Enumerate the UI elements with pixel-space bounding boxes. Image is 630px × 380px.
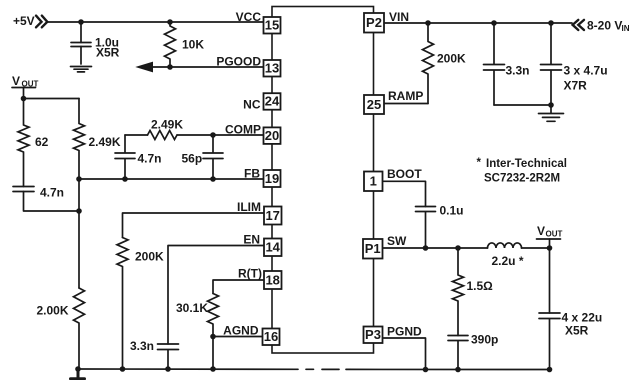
wire FB line to pin 19 xyxy=(79,178,264,180)
svg-text:OUT: OUT xyxy=(546,230,563,239)
net VOUT right underline xyxy=(537,238,561,240)
pin 16 box xyxy=(263,329,280,346)
node junction 30.1K/AGND xyxy=(210,334,216,340)
node junction +5V/10K xyxy=(167,19,173,25)
svg-text:PGOOD: PGOOD xyxy=(216,55,261,69)
svg-text:390p: 390p xyxy=(471,333,498,347)
capacitor C6 3.3n (VIN) xyxy=(484,23,505,105)
node junction divider/C2 xyxy=(76,208,82,214)
pin 1 box xyxy=(364,172,383,192)
wire ground rail dashed segment xyxy=(306,368,339,370)
connector 8-20 VIN input chevron xyxy=(573,20,584,30)
svg-text:16: 16 xyxy=(264,329,278,344)
resistor R4 2.00K xyxy=(74,288,85,369)
svg-text:2.49K: 2.49K xyxy=(151,118,183,132)
svg-text:62: 62 xyxy=(35,135,49,149)
wire input cap commons xyxy=(494,104,551,106)
svg-text:15: 15 xyxy=(265,18,279,33)
resistor R5 2.49K (comp) xyxy=(148,131,178,140)
arrow PGOOD output xyxy=(137,62,153,71)
svg-text:17: 17 xyxy=(265,208,279,223)
pin 14 box xyxy=(264,239,282,257)
net VOUT top-left underline xyxy=(12,87,36,89)
svg-text:V: V xyxy=(12,74,20,88)
svg-text:EN: EN xyxy=(243,233,260,247)
svg-text:25: 25 xyxy=(367,97,381,112)
svg-text:200K: 200K xyxy=(437,52,466,66)
capacitor C8 0.1u xyxy=(416,207,436,249)
capacitor C10 4x22u X5R xyxy=(539,313,560,370)
capacitor C1 1.0u X5R xyxy=(71,43,91,47)
wire ground rail solid left xyxy=(78,368,298,370)
node junction cap common xyxy=(548,102,554,108)
capacitor C3 4.7n (comp) xyxy=(115,135,135,179)
svg-text:1.5Ω: 1.5Ω xyxy=(467,279,494,293)
svg-text:FB: FB xyxy=(244,167,260,181)
svg-text:X5R: X5R xyxy=(565,324,589,338)
svg-text:Inter-Technical: Inter-Technical xyxy=(486,158,567,170)
svg-text:PGND: PGND xyxy=(387,325,422,339)
svg-text:56p: 56p xyxy=(182,152,203,166)
pin 25 box xyxy=(364,95,384,114)
resistor R1 10K xyxy=(165,22,176,67)
pin 13 box xyxy=(264,60,281,77)
svg-text:13: 13 xyxy=(265,61,279,76)
svg-text:+5V: +5V xyxy=(13,14,35,28)
svg-text:AGND: AGND xyxy=(223,324,259,338)
pin P3 box xyxy=(364,327,383,344)
svg-text:V: V xyxy=(537,224,545,238)
svg-text:P1: P1 xyxy=(365,241,381,256)
svg-text:4.7n: 4.7n xyxy=(40,186,64,200)
pin 15 box xyxy=(264,17,281,34)
wire VOUT tap down xyxy=(24,88,80,99)
wire VIN line xyxy=(384,22,573,24)
resistor R2 62 xyxy=(18,99,29,187)
svg-text:VCC: VCC xyxy=(236,10,262,24)
ground rail earth symbol xyxy=(71,369,85,379)
node junction rail/4x22u xyxy=(547,367,553,373)
svg-text:0.1u: 0.1u xyxy=(440,204,464,218)
svg-text:4.7n: 4.7n xyxy=(138,152,162,166)
resistor R3 2.49K (divider upper) xyxy=(74,99,85,180)
capacitor C4 56p xyxy=(203,135,223,179)
connector +5V input chevron xyxy=(36,16,47,28)
svg-text:1: 1 xyxy=(370,174,377,189)
wire EN line xyxy=(168,246,264,345)
svg-text:8-20 V: 8-20 V xyxy=(587,19,622,33)
ground below C1 xyxy=(71,67,92,72)
svg-text:NC: NC xyxy=(243,98,261,112)
svg-text:2.00K: 2.00K xyxy=(37,304,69,318)
svg-text:30.1K: 30.1K xyxy=(176,301,208,315)
svg-text:OUT: OUT xyxy=(22,80,39,89)
node junction 10K/PGOOD xyxy=(167,64,173,70)
svg-text:3.3n: 3.3n xyxy=(130,339,154,353)
svg-text:P3: P3 xyxy=(365,327,381,342)
wire PGOOD line xyxy=(150,66,264,68)
svg-text:18: 18 xyxy=(265,272,279,287)
svg-text:19: 19 xyxy=(265,171,279,186)
node junction rail/390p xyxy=(455,367,461,373)
pin 20 box xyxy=(264,127,281,143)
node junction VOUT/L1 xyxy=(547,245,553,251)
node junction rail/3.3n xyxy=(165,366,171,372)
wire RAMP line xyxy=(384,103,429,105)
svg-text:VIN: VIN xyxy=(389,10,409,24)
svg-text:24: 24 xyxy=(265,94,280,109)
ground below input caps xyxy=(539,105,564,121)
wire C2 bottom to FB divider node xyxy=(24,192,80,212)
capacitor C2 4.7n (left) xyxy=(13,187,34,192)
resistor R9 1.5ohm snubber xyxy=(453,248,464,336)
svg-text:200K: 200K xyxy=(135,250,164,264)
node junction VIN/3x4.7u xyxy=(548,20,554,26)
wire AGND line xyxy=(213,337,263,370)
wire R(T) line xyxy=(213,280,264,294)
node junction rail/30.1K xyxy=(210,366,216,372)
node junction FB/divider xyxy=(76,176,82,182)
resistor R7 30.1K xyxy=(208,294,219,337)
node junction +5V/1.0u xyxy=(78,19,84,25)
svg-text:2.49K: 2.49K xyxy=(89,135,121,149)
wire 1.0u cap branch xyxy=(80,22,82,64)
svg-text:4 x 22u: 4 x 22u xyxy=(562,311,603,325)
svg-text:10K: 10K xyxy=(182,38,204,52)
node junction SW/snubber xyxy=(455,245,461,251)
svg-text:20: 20 xyxy=(265,128,279,143)
svg-text:COMP: COMP xyxy=(225,123,261,137)
svg-text:IN: IN xyxy=(622,24,630,33)
svg-text:ILIM: ILIM xyxy=(237,200,261,214)
resistor R6 200K (ILIM) xyxy=(117,238,128,370)
svg-text:SW: SW xyxy=(387,234,407,248)
node junction FB/C4 xyxy=(210,176,216,182)
wire BOOT line xyxy=(384,181,426,206)
capacitor C7 3x4.7u X7R xyxy=(541,23,562,105)
svg-text:X5R: X5R xyxy=(96,46,120,60)
pin 19 box xyxy=(264,170,281,187)
svg-text:3.3n: 3.3n xyxy=(506,64,530,78)
node junction VOUT xyxy=(21,96,27,102)
svg-text:3 x 4.7u: 3 x 4.7u xyxy=(564,64,608,78)
node junction VIN/3.3n xyxy=(491,20,497,26)
pin P2 box xyxy=(364,13,384,33)
node junction rail/2.00K xyxy=(75,366,81,372)
wire PGND line xyxy=(384,338,426,370)
pin P1 box xyxy=(363,239,383,259)
capacitor C9 390p xyxy=(448,336,468,370)
inductor L1 2.2u xyxy=(488,243,522,248)
svg-text:*: * xyxy=(477,157,482,169)
wire ILIM line xyxy=(123,213,264,238)
svg-text:P2: P2 xyxy=(366,15,382,30)
wire ground rail solid right xyxy=(346,368,550,370)
pin 18 box xyxy=(264,271,282,289)
svg-text:RAMP: RAMP xyxy=(388,89,423,103)
wire FB vertical through divider xyxy=(78,179,80,288)
pin 17 box xyxy=(264,207,282,225)
node junction rail/200K xyxy=(120,366,126,372)
pin 24 box xyxy=(264,93,281,110)
capacitor C5 3.3n (EN) xyxy=(158,344,179,369)
node junction rail/PGND xyxy=(423,367,429,373)
svg-text:2.2u *: 2.2u * xyxy=(492,254,524,268)
IC U1 SC7232 body outline xyxy=(272,7,374,354)
svg-text:R(T): R(T) xyxy=(238,267,262,281)
wire SW line xyxy=(384,247,550,249)
svg-text:14: 14 xyxy=(265,240,280,255)
wire VOUT tap to SW output xyxy=(549,239,551,313)
node junction VIN/200K xyxy=(425,20,431,26)
node junction SW/0.1u xyxy=(423,245,429,251)
svg-text:X7R: X7R xyxy=(564,79,588,93)
svg-text:SC7232-2R2M: SC7232-2R2M xyxy=(484,173,560,185)
node junction COMP/56p xyxy=(210,132,216,138)
svg-text:BOOT: BOOT xyxy=(387,167,422,181)
wire COMP line xyxy=(125,134,264,136)
resistor R8 200K (RAMP) xyxy=(423,23,434,104)
wire +5V rail to VCC xyxy=(47,21,264,23)
node junction FB/C3 xyxy=(122,176,128,182)
